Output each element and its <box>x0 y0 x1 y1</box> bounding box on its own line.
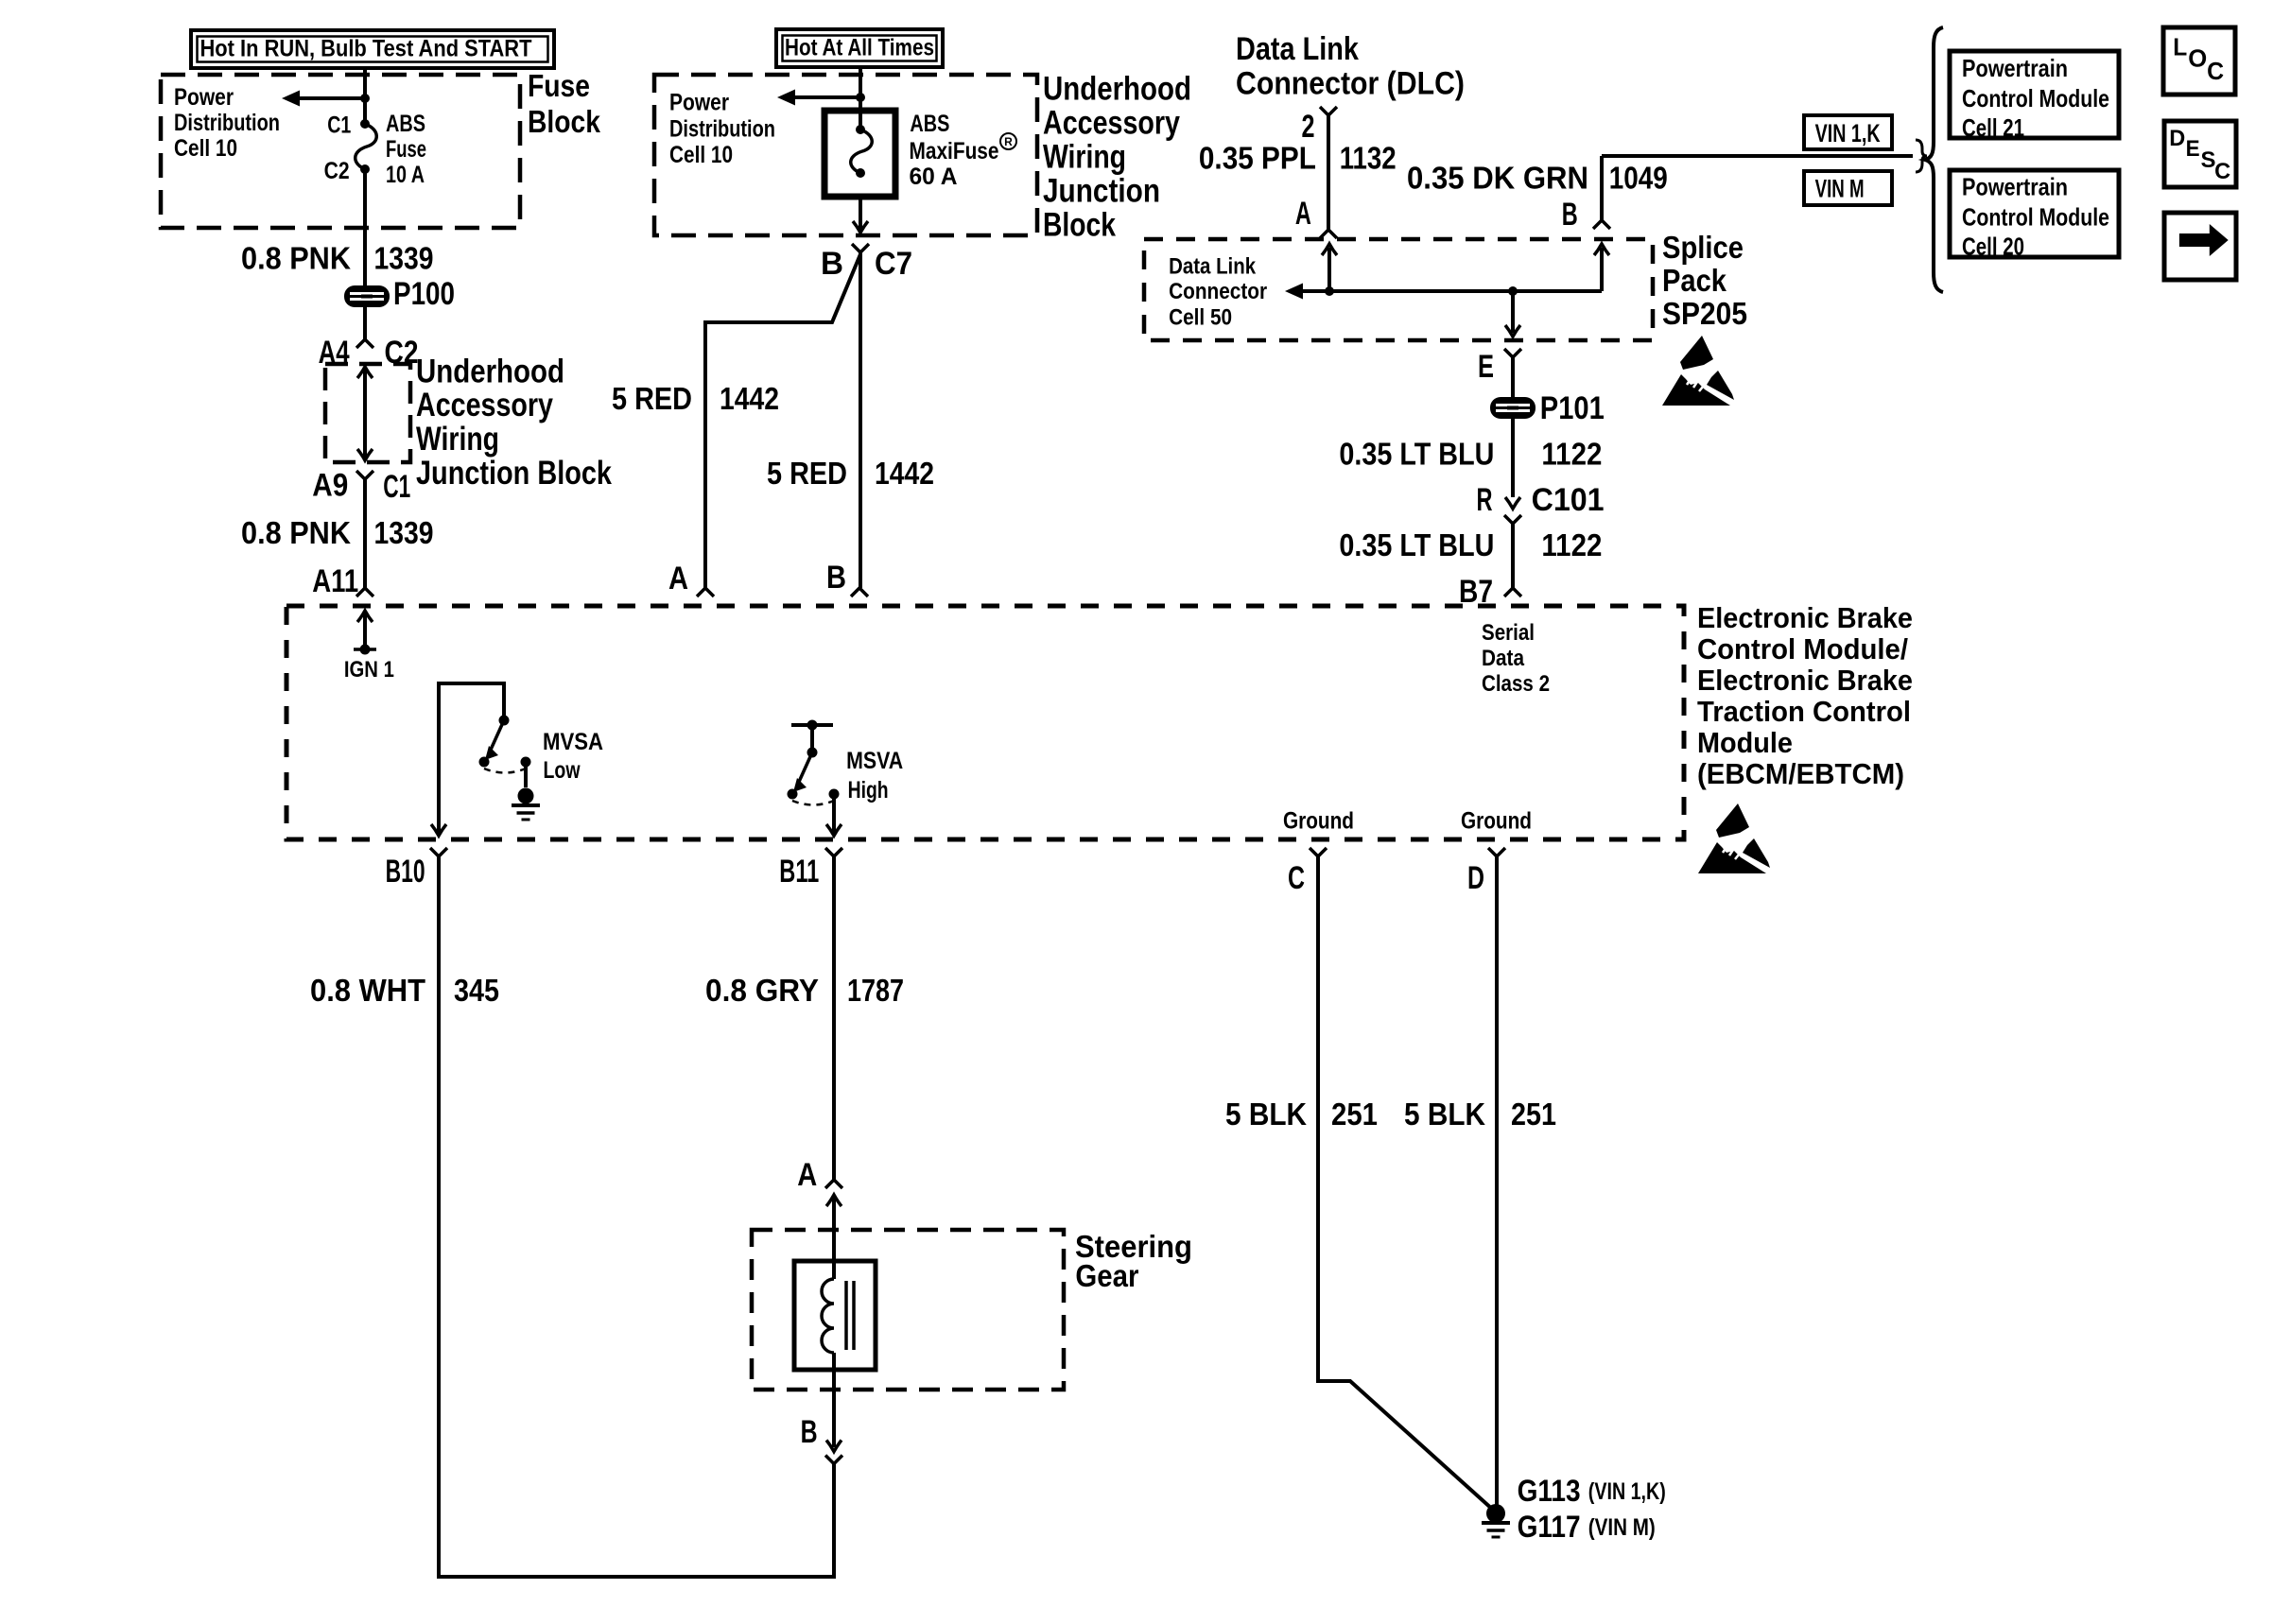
svg-text:B10: B10 <box>386 854 425 890</box>
svg-text:ABS: ABS <box>386 111 425 137</box>
svg-text:A: A <box>797 1157 817 1193</box>
svg-text:C: C <box>1288 860 1305 896</box>
svg-text:Wiring: Wiring <box>1043 139 1126 176</box>
svg-text:R: R <box>1004 135 1013 148</box>
svg-text:Wiring: Wiring <box>416 421 499 458</box>
svg-text:Junction Block: Junction Block <box>416 455 612 492</box>
svg-text:1049: 1049 <box>1609 162 1668 197</box>
svg-text:251: 251 <box>1331 1097 1378 1132</box>
svg-text:251: 251 <box>1511 1097 1556 1132</box>
svg-text:Ground: Ground <box>1461 808 1532 835</box>
svg-text:C2: C2 <box>324 158 350 184</box>
svg-text:Control Module/: Control Module/ <box>1697 632 1908 665</box>
svg-text:G113: G113 <box>1518 1474 1581 1508</box>
svg-text:5 RED: 5 RED <box>767 457 847 492</box>
svg-text:(VIN M): (VIN M) <box>1588 1514 1656 1541</box>
svg-text:Powertrain: Powertrain <box>1962 54 2068 82</box>
svg-text:Data Link: Data Link <box>1169 253 1256 279</box>
svg-text:10 A: 10 A <box>386 162 425 188</box>
svg-text:0.35 PPL: 0.35 PPL <box>1199 142 1316 177</box>
svg-text:Fuse: Fuse <box>528 68 590 103</box>
svg-text:Control Module: Control Module <box>1962 84 2109 112</box>
svg-text:Block: Block <box>528 104 601 139</box>
svg-text:C7: C7 <box>875 246 912 282</box>
svg-text:(EBCM/EBTCM): (EBCM/EBTCM) <box>1697 757 1904 790</box>
svg-text:Splice: Splice <box>1662 230 1744 265</box>
svg-text:Low: Low <box>544 757 581 784</box>
svg-text:Junction: Junction <box>1043 173 1160 210</box>
svg-text:B: B <box>826 560 846 596</box>
svg-text:C1: C1 <box>327 112 351 139</box>
svg-text:1339: 1339 <box>374 516 434 551</box>
svg-text:S: S <box>2201 147 2216 173</box>
svg-text:(VIN 1,K): (VIN 1,K) <box>1588 1478 1666 1505</box>
svg-text:Electronic Brake: Electronic Brake <box>1697 664 1913 697</box>
svg-text:C: C <box>2214 159 2230 184</box>
svg-text:0.35 DK GRN: 0.35 DK GRN <box>1407 162 1588 197</box>
svg-text:A11: A11 <box>312 563 358 599</box>
svg-text:Cell 10: Cell 10 <box>174 135 237 162</box>
svg-text:MSVA: MSVA <box>846 748 903 774</box>
svg-text:1122: 1122 <box>1541 528 1602 563</box>
svg-text:1132: 1132 <box>1340 142 1397 177</box>
svg-text:1442: 1442 <box>875 457 934 492</box>
svg-text:Distribution: Distribution <box>174 110 280 136</box>
svg-text:0.35 LT BLU: 0.35 LT BLU <box>1339 438 1494 473</box>
svg-text:P101: P101 <box>1540 390 1605 426</box>
svg-text:O: O <box>2188 44 2207 73</box>
svg-text:D: D <box>2169 126 2185 151</box>
svg-text:Electronic Brake: Electronic Brake <box>1697 601 1913 634</box>
svg-text:0.35 LT BLU: 0.35 LT BLU <box>1339 528 1494 563</box>
svg-text:B: B <box>821 246 843 282</box>
svg-text:VIN M: VIN M <box>1815 175 1865 203</box>
svg-text:L: L <box>2173 33 2187 61</box>
svg-text:D: D <box>1467 860 1484 896</box>
svg-text:Underhood: Underhood <box>416 353 564 389</box>
svg-text:VIN 1,K: VIN 1,K <box>1815 119 1881 147</box>
svg-text:SP205: SP205 <box>1662 296 1747 331</box>
svg-text:1787: 1787 <box>847 974 904 1009</box>
svg-text:0.8 WHT: 0.8 WHT <box>310 974 425 1009</box>
svg-text:0.8 GRY: 0.8 GRY <box>705 974 819 1009</box>
svg-text:1442: 1442 <box>720 382 779 417</box>
svg-text:IGN 1: IGN 1 <box>344 657 394 682</box>
svg-text:345: 345 <box>454 974 499 1009</box>
svg-text:5 RED: 5 RED <box>612 382 692 417</box>
svg-text:MaxiFuse: MaxiFuse <box>910 138 999 164</box>
svg-text:Data Link: Data Link <box>1236 31 1360 67</box>
svg-text:ABS: ABS <box>910 111 949 137</box>
svg-text:Module: Module <box>1697 726 1793 759</box>
svg-text:Cell 50: Cell 50 <box>1169 305 1232 331</box>
svg-text:1122: 1122 <box>1541 438 1602 473</box>
svg-text:Traction Control: Traction Control <box>1697 695 1911 728</box>
svg-text:Gear: Gear <box>1075 1258 1138 1293</box>
svg-text:High: High <box>848 777 889 803</box>
svg-text:Pack: Pack <box>1662 263 1727 298</box>
svg-text:1339: 1339 <box>374 242 434 277</box>
svg-text:A: A <box>1295 196 1311 232</box>
svg-text:A9: A9 <box>312 468 348 504</box>
svg-text:2: 2 <box>1302 109 1315 145</box>
svg-text:B: B <box>1562 197 1578 233</box>
svg-text:Cell 21: Cell 21 <box>1962 113 2024 142</box>
svg-text:Hot At All Times: Hot At All Times <box>785 35 934 61</box>
svg-text:R: R <box>1477 482 1493 518</box>
svg-text:B: B <box>801 1414 818 1450</box>
svg-text:C101: C101 <box>1532 482 1605 518</box>
svg-text:C: C <box>2207 57 2224 85</box>
svg-text:P100: P100 <box>393 276 455 312</box>
svg-text:C1: C1 <box>383 469 410 505</box>
svg-text:Ground: Ground <box>1283 808 1354 835</box>
svg-text:Class 2: Class 2 <box>1482 671 1550 697</box>
svg-text:MVSA: MVSA <box>543 729 603 755</box>
svg-text:Accessory: Accessory <box>416 387 553 423</box>
svg-text:Block: Block <box>1043 207 1116 244</box>
svg-text:Distribution: Distribution <box>669 116 775 143</box>
svg-text:Connector (DLC): Connector (DLC) <box>1236 66 1465 102</box>
svg-text:Hot In RUN, Bulb Test And STAR: Hot In RUN, Bulb Test And START <box>200 36 532 62</box>
svg-text:5 BLK: 5 BLK <box>1404 1097 1485 1132</box>
svg-text:A: A <box>668 561 688 596</box>
svg-text:5 BLK: 5 BLK <box>1225 1097 1307 1132</box>
svg-text:Serial: Serial <box>1482 620 1535 646</box>
svg-text:0.8 PNK: 0.8 PNK <box>241 242 351 277</box>
svg-text:Fuse: Fuse <box>386 136 426 163</box>
svg-text:Power: Power <box>669 90 729 116</box>
svg-text:Data: Data <box>1482 646 1524 671</box>
svg-text:0.8 PNK: 0.8 PNK <box>241 516 351 551</box>
svg-text:Connector: Connector <box>1169 279 1267 304</box>
svg-text:Accessory: Accessory <box>1043 105 1180 142</box>
svg-text:Control Module: Control Module <box>1962 203 2109 232</box>
svg-text:60 A: 60 A <box>910 164 958 190</box>
svg-text:Cell 20: Cell 20 <box>1962 233 2024 261</box>
svg-text:Power: Power <box>174 84 234 111</box>
svg-text:E: E <box>2186 136 2200 162</box>
svg-text:E: E <box>1478 349 1494 385</box>
svg-text:Underhood: Underhood <box>1043 71 1191 108</box>
svg-text:Powertrain: Powertrain <box>1962 173 2068 201</box>
svg-text:G117: G117 <box>1518 1510 1581 1544</box>
svg-text:B11: B11 <box>779 854 819 890</box>
svg-text:Cell 10: Cell 10 <box>669 142 733 168</box>
